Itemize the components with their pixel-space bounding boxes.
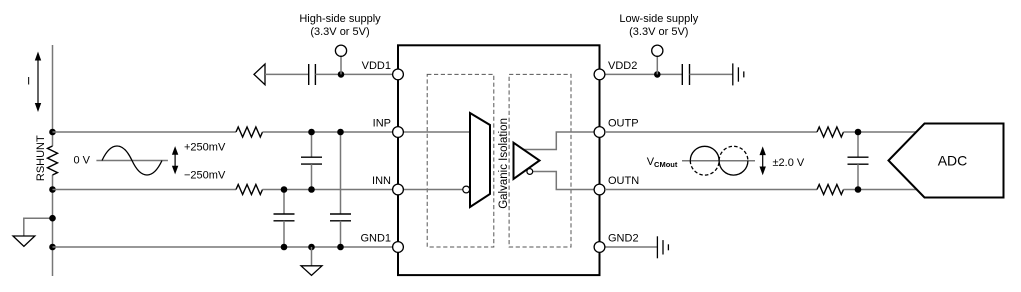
wire VDD1 to pin	[315, 73, 395, 75]
wire GND row	[53, 246, 396, 248]
wire INN internal	[398, 189, 463, 191]
svg-text:High-side supply: High-side supply	[299, 13, 381, 25]
capacitor INP to GND	[330, 132, 351, 247]
modulator trapezoid	[470, 113, 490, 207]
svg-text:VDD2: VDD2	[608, 60, 637, 72]
inverting bubble output	[527, 169, 533, 175]
svg-text:VDD1: VDD1	[362, 60, 391, 72]
node INP-diffcap	[308, 129, 315, 136]
op-amp U1 isolated amplifier body	[398, 45, 600, 275]
svg-text:(3.3V or 5V): (3.3V or 5V)	[310, 26, 369, 38]
node INN-diffcap	[308, 186, 315, 193]
output swing arrow	[760, 146, 766, 175]
node rail-INN	[49, 186, 56, 193]
resistor RSHUNT	[48, 146, 58, 175]
svg-text:Galvanic Isolation: Galvanic Isolation	[498, 118, 510, 209]
pin VDD2	[594, 69, 605, 80]
wire OUTN row	[605, 189, 817, 191]
svg-text:I: I	[27, 76, 30, 88]
dashed box high-side	[427, 74, 494, 247]
ground (GND2, bar style)	[657, 236, 668, 258]
ground arrow (high-side)	[254, 64, 265, 85]
capacitor INN to GND	[274, 190, 295, 248]
node OUTP-cap	[855, 129, 862, 136]
wire ground branch	[24, 218, 53, 236]
wire OUTN internal	[532, 172, 599, 190]
svg-text:Low-side supply: Low-side supply	[619, 13, 698, 25]
svg-text:OUTP: OUTP	[608, 118, 639, 130]
supply terminal low-side	[652, 45, 663, 74]
ADC block	[889, 124, 1004, 198]
output sine solid	[690, 146, 748, 175]
node VDD1 supply tap	[338, 71, 345, 78]
wire OUTP internal	[523, 132, 600, 150]
node INP-cap2	[337, 129, 344, 136]
resistor output OUTN	[817, 185, 844, 195]
ground (input network)	[301, 247, 322, 275]
current arrow I	[35, 52, 41, 113]
pin GND2	[594, 242, 605, 253]
node GND-cap1	[281, 244, 288, 251]
wire high-voltage rail top segment	[52, 45, 54, 146]
node OUTN-cap	[855, 186, 862, 193]
wire VDD1 row	[265, 73, 309, 75]
node GND-cap2	[337, 244, 344, 251]
svg-text:OUTN: OUTN	[608, 175, 639, 187]
capacitor output differential	[848, 132, 869, 190]
ground (left shunt)	[13, 236, 35, 246]
svg-text:INN: INN	[372, 175, 391, 187]
resistor output OUTP	[817, 127, 844, 137]
node rail-INP	[49, 129, 56, 136]
capacitor VDD1 bypass	[309, 64, 316, 85]
resistor input INN	[236, 185, 263, 195]
input swing arrow	[172, 146, 178, 174]
svg-text:GND1: GND1	[360, 233, 391, 245]
pin VDD1	[393, 69, 404, 80]
pin GND1	[393, 242, 404, 253]
pin INN	[393, 184, 404, 195]
wire OUTP to ADC	[844, 131, 919, 133]
svg-text:(3.3V or 5V): (3.3V or 5V)	[629, 26, 688, 38]
resistor input INP	[236, 127, 263, 137]
output sine centerline	[682, 160, 755, 162]
source sine centerline	[96, 160, 167, 162]
svg-text:−250mV: −250mV	[184, 170, 226, 182]
pin OUTN	[594, 184, 605, 195]
wire INP internal	[398, 131, 470, 133]
node VDD2 supply tap	[654, 71, 661, 78]
wire INN row left	[53, 189, 237, 191]
inverting bubble modulator	[463, 186, 470, 193]
supply terminal high-side	[335, 45, 346, 74]
pin OUTP	[594, 127, 605, 138]
node GND-gnd	[308, 244, 315, 251]
svg-text:GND2: GND2	[608, 233, 639, 245]
wire OUTN to ADC	[844, 189, 919, 191]
capacitor differential INP-INN	[301, 132, 322, 190]
wire OUTP row	[605, 131, 817, 133]
wire INP row left	[53, 131, 237, 133]
pin INP	[393, 127, 404, 138]
wire VDD2 row	[604, 73, 682, 75]
svg-text:0 V: 0 V	[73, 155, 90, 167]
wire GND2 to ground	[604, 246, 657, 248]
svg-text:±2.0 V: ±2.0 V	[773, 157, 805, 169]
svg-text:+250mV: +250mV	[184, 141, 226, 153]
node rail-GND	[49, 244, 56, 251]
ground (VDD2, bar style)	[733, 63, 744, 85]
wire INN row to pin	[263, 189, 396, 191]
svg-text:RSHUNT: RSHUNT	[35, 135, 47, 181]
output sine dashed	[690, 146, 748, 175]
output amplifier triangle	[514, 143, 540, 179]
capacitor VDD2 bypass	[682, 64, 689, 85]
dashed box low-side	[509, 74, 571, 247]
node INN-cap1	[281, 186, 288, 193]
wire high-voltage rail bottom segment	[52, 175, 54, 276]
node rail-ground-branch	[49, 215, 56, 222]
wire INP row to pin	[263, 131, 396, 133]
svg-text:ADC: ADC	[938, 153, 968, 169]
wire VDD2 cap to ground	[690, 73, 733, 75]
svg-text:INP: INP	[373, 118, 391, 130]
source sine wave	[102, 146, 162, 175]
